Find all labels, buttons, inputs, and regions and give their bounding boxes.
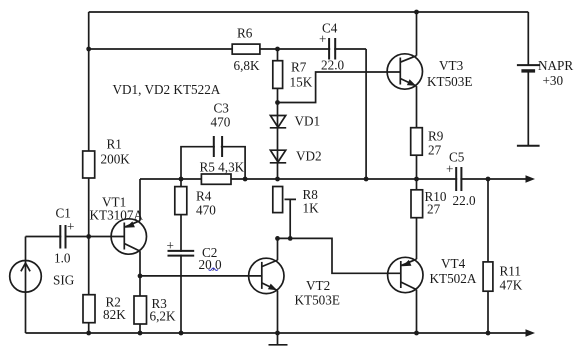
svg-text:27: 27 <box>428 143 442 158</box>
wire VT3 emitter to R9 <box>416 86 418 128</box>
node bottom rail / C2 <box>179 331 184 336</box>
transistor VT4 (PNP KT502A) <box>388 256 477 293</box>
svg-text:470: 470 <box>211 115 231 130</box>
node bottom rail / R11 <box>486 331 491 336</box>
svg-text:+: + <box>167 238 174 253</box>
transistor VT1 (PNP KT3107A) <box>90 195 147 255</box>
spellcheck squiggle under 20,0 <box>209 268 219 270</box>
node top rail / VT3 collector <box>414 10 419 15</box>
resistor R9 <box>411 128 423 156</box>
svg-text:VD2: VD2 <box>296 149 322 164</box>
svg-text:VT2: VT2 <box>306 278 330 293</box>
wire top rail <box>89 11 529 13</box>
node bottom rail / VT4 collector <box>414 331 419 336</box>
resistor R6 <box>232 44 260 54</box>
svg-text:20,0: 20,0 <box>199 257 222 272</box>
svg-text:6,2K: 6,2K <box>150 309 176 324</box>
node bottom rail / VT2 emitter <box>275 331 280 336</box>
svg-text:VT3: VT3 <box>439 58 464 73</box>
wire VT4 collector to bottom rail <box>416 290 418 333</box>
wire second rail to C4 <box>89 48 366 50</box>
wire VT1 collector down and to VT2 base <box>140 251 262 276</box>
capacitor C1 <box>61 224 64 249</box>
svg-text:1K: 1K <box>303 201 320 216</box>
svg-text:+: + <box>446 162 453 177</box>
svg-text:R6: R6 <box>237 26 253 41</box>
node R8 bottom / VT2 collector <box>275 236 280 241</box>
svg-text:1.0: 1.0 <box>54 251 71 266</box>
wire VT3 collector to top rail <box>416 12 418 56</box>
resistor R1 <box>83 151 95 178</box>
node VT1 collector / R3 <box>138 274 143 279</box>
wire left column (R1/R2 column) <box>88 12 90 333</box>
svg-text:VD1, VD2 KT522A: VD1, VD2 KT522A <box>113 82 221 97</box>
svg-text:6,8K: 6,8K <box>234 58 260 73</box>
wire VT2 emitter down <box>277 291 279 334</box>
wire zigzag R7 bottom to VT3 base <box>278 72 401 103</box>
svg-text:200K: 200K <box>101 152 131 167</box>
resistor R4 <box>175 187 187 215</box>
wire VT1 emitter up <box>139 179 141 221</box>
svg-text:+30: +30 <box>543 73 564 88</box>
svg-text:VD1: VD1 <box>295 114 321 129</box>
node bottom rail / R3 <box>138 331 143 336</box>
wire R8 bottom to VT4 base <box>278 238 401 273</box>
resistor R3 <box>134 296 147 324</box>
capacitor C2 <box>175 252 187 255</box>
svg-text:R1: R1 <box>107 137 122 152</box>
svg-text:+: + <box>319 32 326 47</box>
wire SIG column <box>25 237 27 334</box>
wire R10 to VT4 emitter <box>416 218 418 260</box>
node VT1 base / C1 <box>86 234 91 239</box>
svg-text:R11: R11 <box>500 264 522 279</box>
wire R9-R10 column through mid rail <box>416 155 418 190</box>
capacitor C5 <box>457 178 460 181</box>
svg-text:R7: R7 <box>291 60 307 75</box>
resistor R11 <box>483 262 493 291</box>
svg-text:R4: R4 <box>196 189 212 204</box>
diode VD2 <box>270 150 286 163</box>
svg-text:KT502A: KT502A <box>430 271 477 286</box>
svg-text:KT503E: KT503E <box>295 293 340 308</box>
node mid rail / C3 right <box>243 177 248 182</box>
diode VD1 <box>270 116 286 128</box>
svg-text:VT4: VT4 <box>441 256 466 271</box>
wire R11 column <box>487 179 489 333</box>
node bottom rail / R2 <box>86 331 91 336</box>
ground stub below VT2 <box>269 333 288 345</box>
svg-text:27: 27 <box>427 202 441 217</box>
wire VT2 collector up to R8 bottom <box>277 238 279 260</box>
transistor VT3 (NPN KT503E) <box>387 54 472 89</box>
svg-text:82K: 82K <box>103 307 126 322</box>
wire C1 to SIG <box>26 236 89 238</box>
wire stub T at R8 bottom <box>285 199 297 238</box>
svg-text:470: 470 <box>196 203 216 218</box>
svg-text:SIG: SIG <box>53 273 75 288</box>
svg-text:+: + <box>67 219 74 234</box>
resistor R5 <box>201 174 231 184</box>
battery NAPR <box>517 12 573 146</box>
node R7 bottom / VD1 / VT3 base branch <box>275 100 280 105</box>
wire C4 right leg down to mid rail <box>365 49 367 179</box>
svg-text:22.0: 22.0 <box>321 58 344 73</box>
svg-text:22.0: 22.0 <box>453 193 476 208</box>
wire mid rail <box>140 178 529 180</box>
node mid rail / R11 top <box>486 177 491 182</box>
resistor R8 <box>273 187 283 213</box>
wire VT1 base <box>89 236 125 238</box>
node mid rail / C4 leg <box>364 177 369 182</box>
node mid rail / R4 C3 <box>179 177 184 182</box>
wire C3 loop <box>181 147 245 179</box>
node R8 bottom / stub <box>288 236 293 241</box>
svg-text:C3: C3 <box>214 101 230 116</box>
svg-text:KT503E: KT503E <box>427 74 472 89</box>
svg-text:47K: 47K <box>500 278 523 293</box>
wire R4/C2 column <box>180 179 182 333</box>
svg-text:KT3107A: KT3107A <box>90 208 144 223</box>
resistor R7 <box>273 61 283 89</box>
svg-text:R9: R9 <box>428 129 444 144</box>
capacitor C3 <box>215 145 221 148</box>
svg-text:15K: 15K <box>290 75 313 90</box>
wire R3 column <box>139 276 141 333</box>
resistor R2 <box>83 295 95 323</box>
output arrow mid rail <box>526 175 536 182</box>
transistor VT2 (NPN KT503E) <box>249 258 340 307</box>
wire R7/VD/R8 column <box>277 49 279 179</box>
svg-text:NAPR: NAPR <box>538 58 573 73</box>
wire bottom rail <box>26 332 530 334</box>
svg-text:R5 4,3K: R5 4,3K <box>200 160 245 175</box>
node mid rail / R9 R10 <box>414 177 419 182</box>
node second rail / left column <box>86 47 91 52</box>
output arrow bottom rail <box>526 329 536 336</box>
node mid rail / VD2 bottom <box>275 177 280 182</box>
capacitor C4 <box>330 48 334 51</box>
node R6 out / R7 top / C4 <box>275 47 280 52</box>
resistor R10 <box>411 190 423 218</box>
source SIG <box>10 261 75 293</box>
